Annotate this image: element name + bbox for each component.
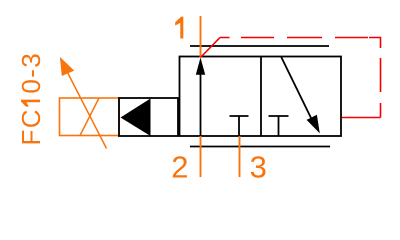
valve position divider: [260, 57, 262, 137]
label FC10-3: [16, 52, 46, 146]
port 1 label: [175, 17, 183, 39]
left position flow arrow head: [196, 58, 205, 75]
port 3 line: [239, 136, 241, 177]
svg-text:0-3: 0-3: [16, 52, 46, 94]
pilot line solid riser: [201, 38, 221, 58]
svg-text:2: 2: [171, 150, 188, 185]
pilot line bottom return: [342, 117, 381, 119]
valve body outline: [180, 57, 342, 137]
pilot line right dashed drop: [380, 58, 382, 118]
left position flow arrow shaft (2 to 1): [200, 70, 202, 136]
pilot line top dashed run: [220, 37, 368, 39]
solenoid box S1 (proportional solenoid): [60, 98, 120, 136]
armature triangle (points left): [121, 99, 151, 137]
right position blocked port T stem: [278, 116, 280, 136]
proportional arrow head: [60, 57, 74, 76]
armature box: [119, 98, 178, 136]
proportional arrow shaft (also cross stroke A): [66, 70, 107, 149]
right position blocked port T cap: [269, 115, 289, 117]
left position blocked port T stem: [238, 116, 240, 136]
left position blocked port T cap: [230, 115, 249, 117]
right position diagonal flow arrow shaft (1 to 3): [281, 57, 313, 122]
svg-text:FC: FC: [16, 108, 46, 145]
pilot line top right corner: [369, 38, 381, 49]
port 1 line: [200, 16, 202, 58]
solenoid cross stroke B: [80, 98, 99, 136]
right position diagonal flow arrow head: [307, 115, 320, 134]
lower rail line: [190, 146, 330, 148]
svg-text:3: 3: [250, 150, 267, 185]
port 2 line: [200, 136, 202, 177]
upper rail line: [190, 45, 329, 47]
